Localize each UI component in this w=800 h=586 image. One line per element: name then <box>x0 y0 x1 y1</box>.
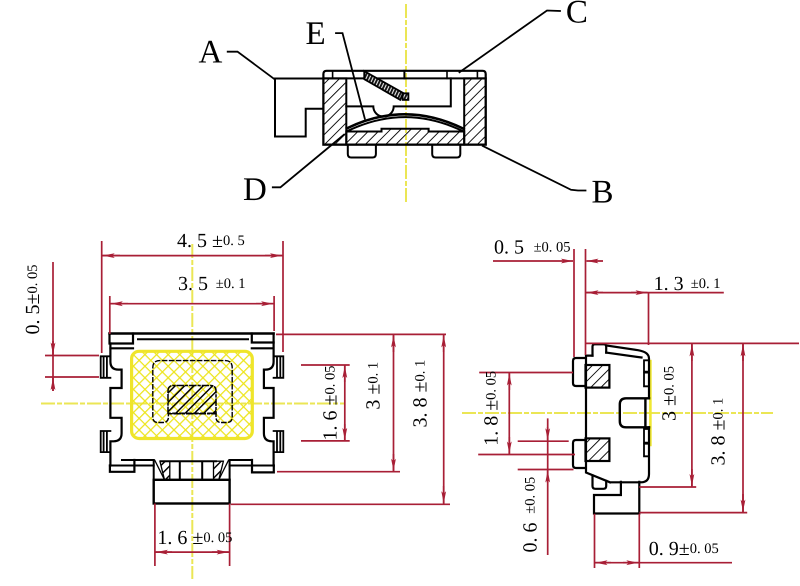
leader B <box>483 146 586 191</box>
dome spring inner arc <box>347 117 463 131</box>
bottom edge left section <box>110 460 154 466</box>
dim text 0.6 rotated <box>520 477 542 553</box>
svg-text:3 ±0. 05: 3 ±0. 05 <box>658 366 680 421</box>
svg-text:±0. 05: ±0. 05 <box>523 477 539 514</box>
dome spring outer arc <box>347 114 464 129</box>
dim 0.5 ext lines <box>573 249 575 357</box>
yellow dome edge line <box>649 361 652 445</box>
upper-right terminal tab <box>274 356 284 378</box>
svg-text:0. 5±0. 05: 0. 5±0. 05 <box>22 265 44 335</box>
dim 3.5 line <box>110 303 274 305</box>
dim 3 bottom ext <box>639 486 696 488</box>
dim 3.5 ext lines <box>109 296 111 334</box>
svg-text:1. 6 ±0. 05: 1. 6 ±0. 05 <box>320 366 342 441</box>
right view centerline horizontal <box>463 412 772 414</box>
leader C <box>460 11 561 73</box>
dim text 3 right rotated <box>658 366 680 421</box>
svg-text:1. 6 ±0. 05: 1. 6 ±0. 05 <box>157 527 232 549</box>
plunger stem hatched bar <box>364 71 403 100</box>
svg-text:A: A <box>199 35 223 71</box>
dim 0.5 lines outside arrows <box>493 260 573 262</box>
leader E <box>336 33 365 119</box>
dim 3 plan line <box>393 334 395 471</box>
bottom stem <box>594 482 639 514</box>
bottom-left corner pad <box>110 460 134 472</box>
plan centerline vertical <box>191 245 193 578</box>
plunger tip block <box>403 93 409 100</box>
bottom-left tab <box>593 476 607 489</box>
top-left tab <box>593 344 607 355</box>
dim text 1.8 rotated <box>480 371 502 446</box>
svg-text:0. 9±0. 05: 0. 9±0. 05 <box>649 538 719 560</box>
right edge notch 3 <box>644 429 649 443</box>
dim 3 plan top ext <box>276 333 446 335</box>
base strip with center contact hatched <box>346 129 464 145</box>
dim 0.6 line outside arrows <box>547 418 549 555</box>
dim 1.6 right line <box>344 365 346 441</box>
right edge notch 2 <box>644 373 649 387</box>
svg-text:±0. 1: ±0. 1 <box>216 276 246 292</box>
upper terminal hatched <box>586 365 610 388</box>
svg-text:B: B <box>592 174 614 210</box>
inner ledge with dome pusher bump <box>346 78 451 116</box>
dim 0.9 line <box>595 562 733 564</box>
svg-text:3. 8 ±0. 1: 3. 8 ±0. 1 <box>708 398 730 466</box>
body top edge <box>110 332 274 334</box>
dim text 0.5 plan rotated <box>22 265 44 335</box>
dome spring dashed outline with feet <box>153 361 232 423</box>
leader D <box>273 135 344 188</box>
side button <box>620 398 649 427</box>
dim 4.5 ext lines <box>101 241 103 353</box>
stem upper part <box>154 460 230 480</box>
right edge notch 4 <box>644 444 649 457</box>
top-left corner pad <box>110 334 134 349</box>
central actuator hatched <box>168 386 216 414</box>
dim 4.5 line <box>102 255 283 257</box>
plan centerline horizontal <box>42 403 344 405</box>
right body edge with clips <box>264 343 274 466</box>
right foot <box>432 145 460 158</box>
svg-text:E: E <box>306 16 326 52</box>
dim 1.8 line <box>508 373 510 455</box>
bottom edge right section <box>230 460 274 466</box>
dim text 3 plan rotated <box>363 362 385 410</box>
left foot <box>348 145 376 158</box>
svg-text:C: C <box>566 0 588 31</box>
dim text 3.8 right rotated <box>708 398 730 466</box>
svg-text:1. 8 ±0. 05: 1. 8 ±0. 05 <box>480 371 502 446</box>
dim 1.6 bottom line <box>155 551 230 553</box>
svg-text:±0. 05: ±0. 05 <box>534 240 571 256</box>
left wall hatched <box>323 78 346 144</box>
svg-text:±0. 1: ±0. 1 <box>691 276 721 292</box>
svg-text:0. 6: 0. 6 <box>520 523 542 553</box>
upper terminal tab <box>573 358 586 386</box>
svg-text:1. 3: 1. 3 <box>654 273 684 295</box>
dim 1.8 ext lines <box>479 372 573 374</box>
lower-right terminal tab <box>274 431 284 452</box>
lower terminal tab <box>573 440 586 468</box>
bottom-right corner pad <box>252 460 274 472</box>
dim 1.6 bottom ext lines <box>154 504 156 567</box>
dim 1.3 right ext <box>648 293 650 345</box>
top-right corner pad <box>252 334 274 349</box>
dim 0.6 ext lines <box>518 440 569 442</box>
dim 0.5 left ext lines <box>45 355 99 357</box>
yellow crosshatch dome area <box>132 351 253 438</box>
svg-text:3 ±0. 1: 3 ±0. 1 <box>363 362 385 410</box>
right wall hatched <box>464 78 486 144</box>
svg-text:4. 5 ±0. 5: 4. 5 ±0. 5 <box>177 230 245 252</box>
leader A <box>228 52 275 79</box>
dim 3.8 right line <box>742 343 744 512</box>
dim 3.8 bottom ext <box>639 512 747 514</box>
dim text 1.6 plan right rotated <box>320 366 342 441</box>
lower-left terminal tab <box>101 431 111 452</box>
svg-text:D: D <box>243 172 267 208</box>
centerline vertical top view <box>405 5 407 204</box>
dim 0.5 left line with outside arrows <box>52 262 54 391</box>
housing outer body <box>323 71 485 145</box>
stem upper left hatched wedge <box>160 461 170 480</box>
lower terminal hatched <box>586 438 610 461</box>
dim 3/3.8 top ext <box>586 342 800 344</box>
dim 0.9 ext lines <box>594 514 596 568</box>
cover inner top line <box>138 338 248 340</box>
stem upper right hatched wedge <box>214 461 224 480</box>
right edge notch 1 <box>644 360 649 371</box>
dim 3.8 plan bottom ext <box>231 503 450 505</box>
side button actuator <box>275 79 323 137</box>
upper-left terminal tab <box>101 356 111 378</box>
stem lower block <box>154 480 230 504</box>
svg-text:3. 8 ±0. 1: 3. 8 ±0. 1 <box>410 360 432 428</box>
body outline <box>586 346 649 483</box>
left body edge with clips <box>110 344 121 466</box>
dim 1.3 line <box>586 292 724 294</box>
cover ticks <box>332 71 334 79</box>
dim 3 right line <box>691 343 693 487</box>
dim 3 plan bottom ext <box>277 471 400 473</box>
svg-text:3. 5: 3. 5 <box>178 273 208 295</box>
dim 3.8 plan line <box>443 334 445 504</box>
cover bottom line <box>323 77 485 79</box>
svg-text:0. 5: 0. 5 <box>494 236 524 258</box>
dim 1.6 right ext lines <box>301 364 350 366</box>
dim text 3.8 plan rotated <box>410 360 432 428</box>
